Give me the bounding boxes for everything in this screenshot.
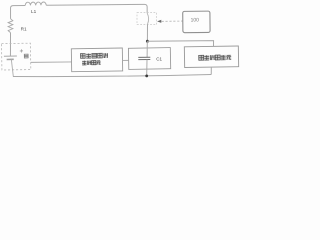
wire: switch to junction node	[146, 24, 148, 41]
switch dashed enclosure	[137, 13, 157, 25]
resistor R1	[8, 19, 13, 33]
middle unit label line1 (5 CJK chars)	[80, 53, 108, 58]
junction node B (dot) on bottom rail	[145, 74, 148, 77]
capacitor C1 bottom lead	[146, 60, 148, 76]
svg-text:100: 100	[191, 17, 200, 23]
wire: source box to middle unit box	[31, 61, 72, 63]
wire: right box bottom lead	[210, 67, 212, 74]
wire: middle box to capacitor box	[123, 59, 129, 61]
middle unit box	[71, 48, 122, 72]
battery E long plate	[4, 55, 17, 57]
small element (cell mark) inside source box	[24, 54, 28, 58]
svg-text:L1: L1	[31, 9, 37, 14]
svg-text:C1: C1	[156, 56, 162, 61]
wire: junction to right unit box top	[147, 41, 213, 46]
svg-text:R1: R1	[21, 26, 27, 31]
capacitor unit box (C1 enclosure)	[128, 48, 170, 70]
capacitor C1 top lead	[146, 41, 148, 57]
middle unit label line2 (4 CJK chars)	[82, 60, 100, 65]
inductor L1	[25, 2, 46, 5]
right unit label (6 CJK chars)	[199, 55, 231, 60]
switch blade	[147, 13, 148, 24]
right unit box	[184, 46, 238, 68]
wire: left vertical with rounded top-left corner into top rail	[11, 5, 26, 18]
control arrow head	[157, 20, 161, 23]
wire: left rail resistor to battery	[9, 33, 11, 56]
battery E plus sign	[20, 49, 23, 52]
junction node A (dot)	[146, 40, 149, 43]
bottom rail wire	[13, 74, 211, 76]
battery negative lead down to bottom rail	[11, 59, 13, 76]
dashed box: power source unit	[1, 43, 30, 70]
capacitor C1 plates	[138, 56, 150, 58]
battery E short plate	[7, 58, 14, 60]
wire: top rail from inductor to top-right corner, down to switch	[46, 4, 147, 13]
dashed control line to unit 100	[162, 20, 183, 22]
control unit box 100	[183, 11, 210, 33]
